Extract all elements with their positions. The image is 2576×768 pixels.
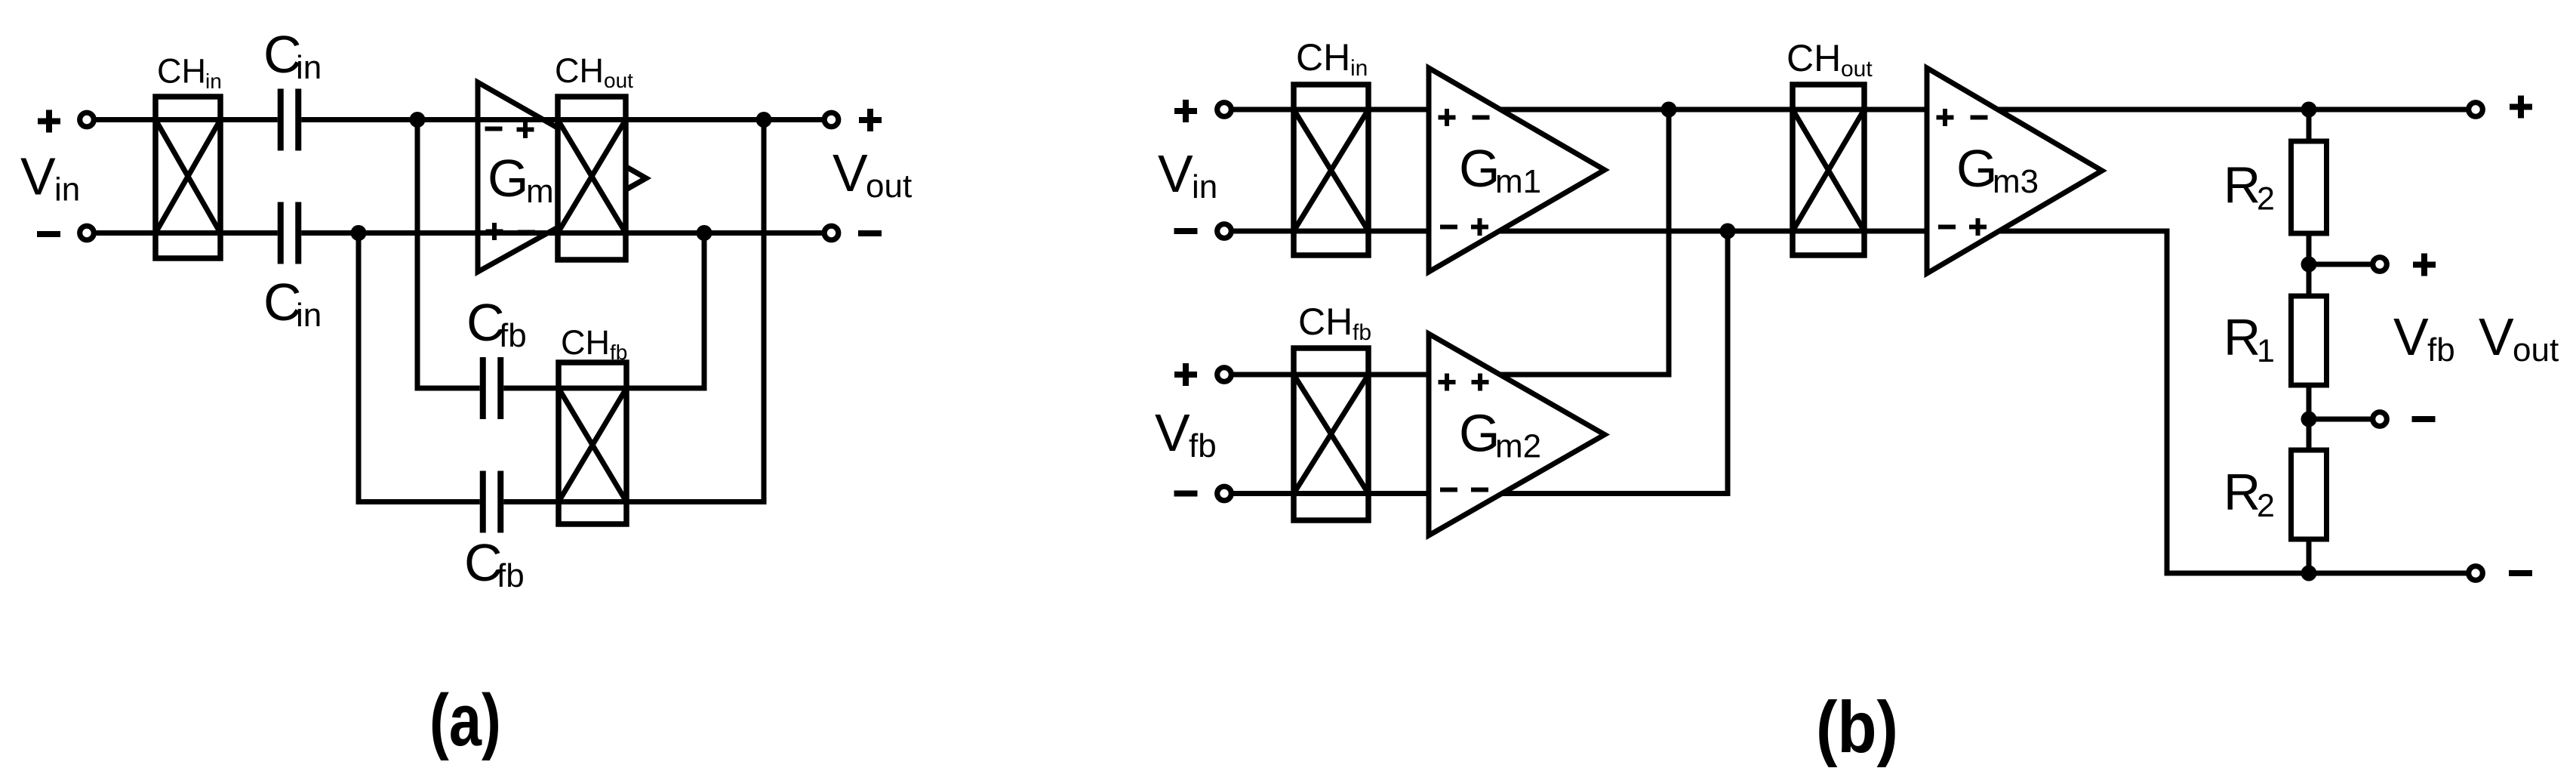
svg-text:R: R [2224, 157, 2261, 214]
svg-text:V: V [2393, 307, 2429, 366]
svg-text:CH: CH [561, 323, 610, 362]
svg-text:V: V [1158, 144, 1193, 203]
svg-text:in: in [1350, 56, 1368, 81]
svg-text:G: G [1459, 139, 1500, 198]
svg-text:fb: fb [610, 341, 627, 364]
svg-text:in: in [1192, 168, 1217, 205]
svg-text:V: V [20, 147, 56, 206]
svg-text:1: 1 [2257, 333, 2275, 369]
svg-text:fb: fb [497, 557, 525, 594]
svg-text:G: G [1459, 404, 1500, 463]
svg-text:CH: CH [1296, 36, 1350, 79]
svg-text:m3: m3 [1993, 163, 2039, 200]
svg-text:CH: CH [157, 52, 206, 91]
svg-text:CH: CH [555, 51, 604, 90]
svg-text:2: 2 [2257, 181, 2275, 217]
svg-text:in: in [296, 49, 322, 86]
svg-text:G: G [1956, 139, 1997, 198]
svg-text:m1: m1 [1495, 163, 1541, 200]
svg-text:CH: CH [1298, 301, 1353, 343]
svg-text:(a): (a) [429, 679, 501, 761]
svg-text:in: in [296, 297, 322, 334]
svg-text:V: V [1155, 403, 1190, 462]
svg-text:in: in [54, 171, 80, 208]
svg-text:fb: fb [1353, 320, 1371, 345]
svg-text:m2: m2 [1495, 428, 1541, 465]
svg-text:R: R [2224, 464, 2261, 521]
svg-text:R: R [2224, 309, 2261, 366]
svg-text:CH: CH [1787, 37, 1841, 79]
svg-text:out: out [1841, 57, 1873, 82]
svg-text:fb: fb [2427, 332, 2455, 369]
svg-text:(b): (b) [1816, 686, 1898, 768]
svg-text:out: out [866, 168, 912, 205]
svg-text:m: m [526, 173, 554, 210]
svg-text:2: 2 [2257, 488, 2275, 524]
svg-text:in: in [205, 69, 222, 93]
svg-text:V: V [833, 143, 868, 202]
svg-text:G: G [488, 149, 528, 208]
svg-text:out: out [604, 69, 633, 92]
svg-text:V: V [2479, 307, 2514, 366]
svg-text:out: out [2513, 332, 2559, 369]
svg-text:fb: fb [1189, 427, 1217, 464]
svg-text:fb: fb [499, 317, 527, 354]
